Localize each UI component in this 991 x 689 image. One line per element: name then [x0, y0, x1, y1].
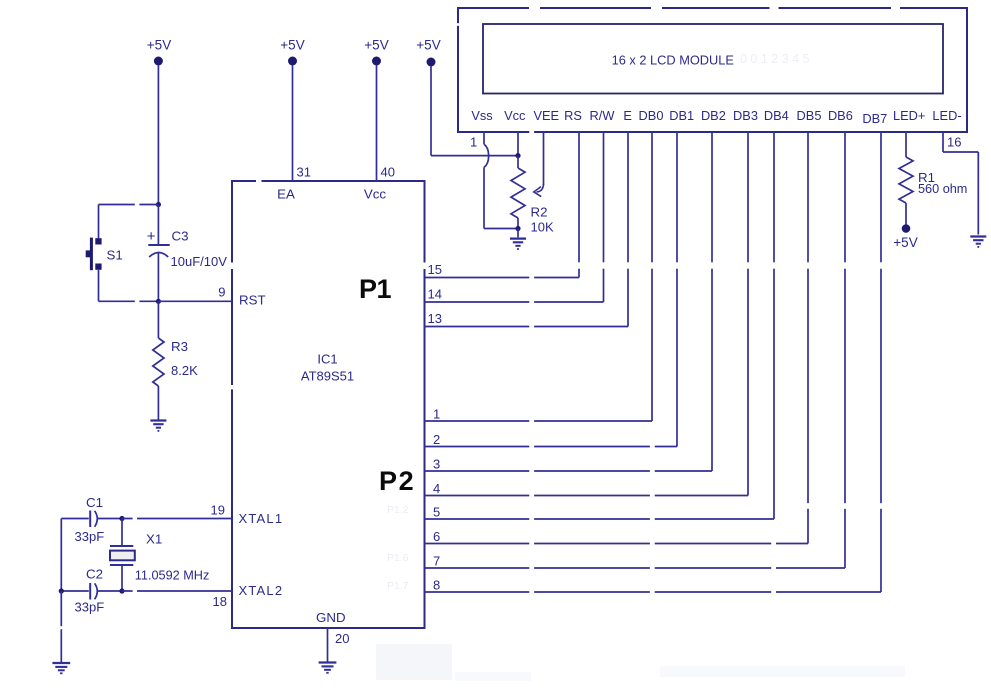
- ground below R3: [150, 419, 166, 421]
- svg-text:+5V: +5V: [893, 235, 917, 250]
- svg-text:Vcc: Vcc: [504, 108, 526, 123]
- svg-text:16 x 2 LCD MODULE: 16 x 2 LCD MODULE: [612, 53, 734, 68]
- wire IC pin 13 to LCD: [425, 326, 629, 328]
- wire IC pin 2 to LCD DB1: [425, 446, 678, 448]
- svg-text:4: 4: [433, 481, 440, 496]
- wire LED- to ground: [942, 131, 944, 152]
- svg-text:+: +: [147, 228, 156, 245]
- LCD display inner box: [483, 24, 943, 94]
- svg-text:40: 40: [381, 165, 395, 180]
- svg-text:S1: S1: [107, 248, 123, 263]
- svg-text:+5V: +5V: [147, 38, 171, 53]
- +5V supply symbol 3: [372, 57, 381, 66]
- wire +5V supply to Vcc node: [430, 66, 432, 155]
- svg-text:1: 1: [470, 135, 477, 150]
- svg-text:DB2: DB2: [701, 108, 726, 123]
- svg-text:11.0592 MHz: 11.0592 MHz: [135, 569, 210, 583]
- wire IC pin 1 to LCD DB0: [425, 420, 653, 422]
- wire IC pin 8 to LCD DB7: [425, 591, 882, 593]
- svg-text:P1.6: P1.6: [387, 552, 409, 564]
- svg-text:10uF/10V: 10uF/10V: [171, 254, 228, 269]
- svg-text:31: 31: [297, 165, 311, 180]
- wire switch bottom to reset node: [98, 270, 100, 302]
- svg-text:P1.7: P1.7: [387, 580, 409, 592]
- svg-text:1: 1: [433, 406, 440, 421]
- svg-text:33pF: 33pF: [75, 529, 105, 544]
- svg-text:AT89S51: AT89S51: [301, 369, 354, 384]
- svg-text:DB5: DB5: [797, 108, 822, 123]
- svg-text:P1: P1: [359, 274, 392, 304]
- wire IC pin 15 to LCD: [425, 277, 580, 279]
- wire +5V to EA pin 31: [292, 65, 294, 181]
- svg-text:+5V: +5V: [364, 38, 388, 53]
- svg-text:+5V: +5V: [280, 38, 304, 53]
- node XTAL2 junction: [119, 588, 124, 593]
- wire junction to switch top: [99, 204, 159, 206]
- svg-text:XTAL2: XTAL2: [239, 583, 284, 598]
- svg-text:DB7: DB7: [862, 111, 887, 126]
- svg-text:9: 9: [218, 285, 225, 300]
- svg-text:15: 15: [428, 262, 442, 277]
- LCD module U2 outer box: [458, 8, 967, 132]
- svg-text:C2: C2: [86, 567, 103, 582]
- node reset top junction: [156, 202, 161, 207]
- svg-text:X1: X1: [146, 532, 162, 547]
- wire IC pin 5 to LCD DB4: [425, 518, 775, 520]
- svg-text:LED-: LED-: [932, 108, 961, 123]
- svg-text:33pF: 33pF: [75, 600, 105, 615]
- svg-text:5: 5: [433, 504, 440, 519]
- svg-text:14: 14: [428, 287, 442, 302]
- R2 wiper arrow from VEE: [543, 131, 545, 185]
- wire LCD Vss pin 1 with hop: [483, 131, 485, 144]
- svg-text:6: 6: [433, 529, 440, 544]
- wire IC GND pin 20 to ground: [327, 628, 329, 662]
- IC1 AT89S51 box: [232, 181, 425, 628]
- svg-text:13: 13: [428, 311, 442, 326]
- node XTAL1 junction: [119, 516, 124, 521]
- wire XTAL1 junction to IC pin 19: [122, 518, 232, 520]
- pushbutton S1: [95, 238, 101, 244]
- svg-text:LED+: LED+: [893, 108, 925, 123]
- +5V supply symbol 1: [154, 57, 163, 66]
- svg-text:DB0: DB0: [639, 108, 664, 123]
- svg-text:10K: 10K: [531, 220, 554, 235]
- svg-text:0 0 1 2 3 4 5: 0 0 1 2 3 4 5: [740, 52, 810, 66]
- faint erased watermark remnants: [376, 644, 452, 680]
- wire LCD Vcc pin to +5V node: [517, 131, 519, 156]
- capacitor C2: [61, 590, 89, 592]
- svg-text:19: 19: [211, 503, 225, 518]
- svg-text:7: 7: [433, 553, 440, 568]
- svg-text:Vss: Vss: [471, 108, 492, 123]
- svg-text:20: 20: [335, 631, 349, 646]
- faint erased pin name ghosts: [387, 504, 409, 592]
- svg-text:R/W: R/W: [590, 108, 616, 123]
- wire +5V down to reset node: [157, 65, 159, 204]
- svg-text:Vcc: Vcc: [364, 187, 387, 202]
- erased wire gaps: [59, 6, 900, 630]
- node R2 bottom junction: [515, 226, 520, 231]
- ground bottom left: [52, 662, 70, 664]
- svg-text:DB4: DB4: [764, 108, 789, 123]
- svg-text:8.2K: 8.2K: [171, 363, 198, 378]
- svg-text:IC1: IC1: [317, 352, 337, 367]
- svg-text:VEE: VEE: [533, 108, 559, 123]
- svg-text:GND: GND: [316, 610, 346, 625]
- wire IC pin 6 to LCD DB5: [425, 543, 809, 545]
- wire IC pin 14 to LCD: [425, 301, 604, 303]
- potentiometer R2: [517, 156, 519, 168]
- wire IC pin 7 to LCD DB6: [425, 567, 846, 569]
- svg-text:EA: EA: [277, 187, 295, 202]
- svg-text:RS: RS: [564, 108, 582, 123]
- svg-text:C3: C3: [172, 229, 189, 244]
- wire IC pin 3 to LCD DB2: [425, 470, 713, 472]
- node left rail junction: [59, 588, 64, 593]
- svg-text:DB3: DB3: [733, 108, 758, 123]
- crystal X1: [121, 519, 123, 547]
- capacitor C3: [157, 205, 159, 246]
- wire +5V to Vcc pin 40: [376, 65, 378, 181]
- svg-text:2: 2: [433, 432, 440, 447]
- capacitor C1: [61, 518, 89, 520]
- svg-text:RST: RST: [239, 293, 266, 308]
- svg-text:C1: C1: [86, 495, 103, 510]
- node Vcc junction: [515, 153, 520, 158]
- resistor R3: [157, 301, 159, 338]
- svg-text:8: 8: [433, 577, 440, 592]
- svg-text:DB1: DB1: [669, 108, 694, 123]
- svg-text:E: E: [623, 108, 632, 123]
- wire IC pin 4 to LCD DB3: [425, 495, 749, 497]
- +5V supply symbol 4: [427, 58, 436, 67]
- svg-text:3: 3: [433, 456, 440, 471]
- wire left rail to ground: [60, 591, 62, 662]
- svg-text:P1.2: P1.2: [387, 504, 409, 516]
- svg-text:18: 18: [213, 594, 227, 609]
- svg-text:XTAL1: XTAL1: [239, 511, 284, 526]
- wire left rail of crystal loop: [60, 519, 62, 592]
- wire XTAL2 junction to IC pin 18: [122, 590, 232, 592]
- svg-text:R2: R2: [531, 205, 548, 220]
- wire RST node to IC pin 9: [158, 300, 232, 302]
- svg-text:+5V: +5V: [416, 38, 440, 53]
- +5V supply symbol 2: [288, 57, 297, 66]
- svg-text:P2: P2: [379, 466, 415, 496]
- +5V supply below R1: [902, 224, 911, 233]
- svg-text:16: 16: [947, 135, 961, 150]
- svg-text:560 ohm: 560 ohm: [918, 182, 967, 196]
- svg-text:R3: R3: [171, 339, 188, 354]
- ground below LED-: [970, 235, 986, 237]
- resistor R1: [905, 131, 907, 157]
- ground below R2: [517, 229, 519, 238]
- ground below IC pin 20: [319, 661, 337, 663]
- node RST junction: [156, 299, 161, 304]
- svg-text:DB6: DB6: [828, 108, 853, 123]
